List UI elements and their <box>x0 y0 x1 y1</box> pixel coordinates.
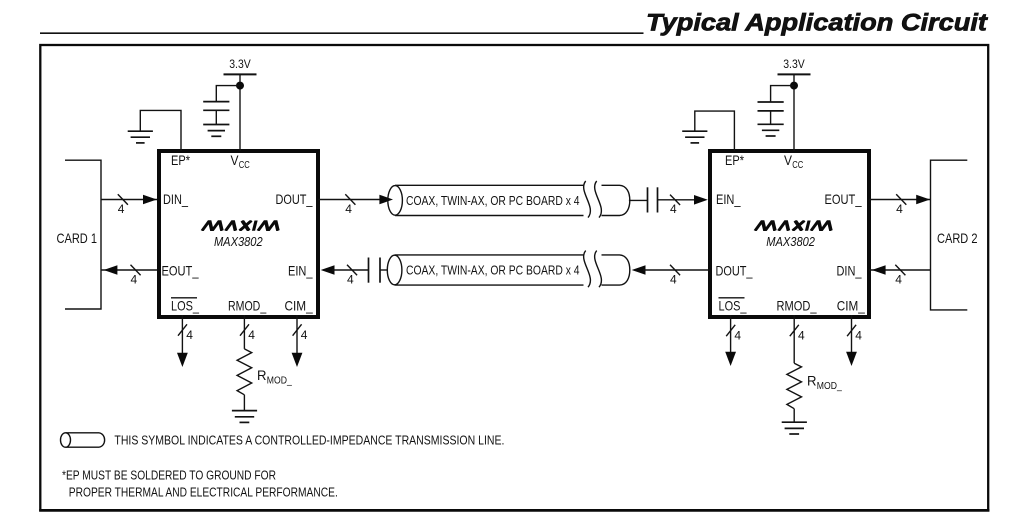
svg-text:COAX, TWIN-AX, OR PC BOARD x 4: COAX, TWIN-AX, OR PC BOARD x 4 <box>406 263 580 278</box>
svg-text:4: 4 <box>301 328 308 342</box>
wire DOUT_ U1 to line 1 <box>318 199 381 201</box>
series capacitor C3 <box>648 187 658 212</box>
arrow into line 2 right end <box>632 265 646 275</box>
line 1 label COAX <box>406 193 580 208</box>
wire EP U2 to ground <box>695 111 735 151</box>
U2 pin label LOS_ (with overline) <box>719 298 747 314</box>
arrow into DIN_ U2 <box>872 265 886 275</box>
svg-text:RMOD_: RMOD_ <box>777 298 817 314</box>
resistor label RMOD_ (U2) <box>807 372 842 392</box>
svg-text:4: 4 <box>345 202 352 216</box>
ground (C2) <box>758 124 784 136</box>
bus width 4 label (DIN_ U2) <box>895 272 902 286</box>
footnote line 1 <box>62 469 276 483</box>
bypass capacitor C1 <box>203 102 229 125</box>
svg-text:EIN_: EIN_ <box>716 191 741 207</box>
bus width 4 label (EOUT_ U2) <box>896 202 903 216</box>
ground (EP U1) <box>128 131 153 143</box>
svg-text:Typical Application Circuit: Typical Application Circuit <box>646 10 988 37</box>
svg-text:DOUT_: DOUT_ <box>716 263 753 279</box>
resistor label RMOD_ (U1) <box>257 367 292 387</box>
bus width 4 label (CIM_ U1) <box>301 328 308 342</box>
ground (EP U2) <box>682 131 707 143</box>
3.3V supply rail (left) <box>224 57 257 74</box>
wire resistor U1 to ground <box>243 395 245 411</box>
U2 pin label EIN_ <box>716 191 741 207</box>
svg-text:LOS_: LOS_ <box>171 298 199 314</box>
svg-text:CARD 1: CARD 1 <box>57 230 98 246</box>
bus slash (CIM_ U2) <box>847 325 856 336</box>
wire C4 to line 2 <box>380 269 388 271</box>
wire EIN_ U1 to C4 <box>332 269 369 271</box>
svg-text:MAX3802: MAX3802 <box>766 235 815 249</box>
svg-text:4: 4 <box>734 329 741 343</box>
line 2 label COAX <box>406 263 580 278</box>
bus width 4 label (EIN_ U1) <box>347 272 354 286</box>
wire C3 to EIN_ U2 <box>658 199 697 201</box>
U2 pin label CIM_ <box>837 298 865 314</box>
U2 part number MAX3802 <box>766 235 815 249</box>
bus slash (RMOD_ U2) <box>790 325 799 336</box>
U1 pin label LOS_ (with overline) <box>171 298 199 314</box>
arrow LOS_ U1 <box>177 353 188 367</box>
3.3V supply rail (right) <box>778 57 811 74</box>
svg-text:4: 4 <box>118 202 125 216</box>
svg-text:DOUT_: DOUT_ <box>276 191 313 207</box>
wire CIM_ U1 down <box>296 315 298 354</box>
wire line 1 to C3 <box>629 199 648 201</box>
wire EP U1 to ground <box>140 110 181 151</box>
svg-text:DIN_: DIN_ <box>837 263 862 279</box>
title rule <box>40 32 644 34</box>
svg-text:4: 4 <box>130 272 137 286</box>
wire CIM_ U2 down <box>851 315 853 353</box>
svg-text:V: V <box>784 152 793 168</box>
arrow CIM_ U1 <box>292 353 303 367</box>
svg-text:4: 4 <box>347 272 354 286</box>
svg-text:3.3V: 3.3V <box>783 57 805 71</box>
U1 pin label EOUT_ <box>162 263 199 279</box>
wire RMOD_ U2 down <box>793 315 795 363</box>
svg-text:LOS_: LOS_ <box>719 298 747 314</box>
svg-text:EP*: EP* <box>725 152 744 168</box>
IC U2 MAX3802 (right) <box>710 151 869 317</box>
wire EOUT_ U2 to CARD 2 <box>869 199 931 201</box>
wire LOS_ U2 down <box>730 315 732 353</box>
arrow LOS_ U2 <box>725 352 736 366</box>
U2 pin label EP* <box>725 152 744 168</box>
resistor RMOD_ (U1) <box>237 349 252 395</box>
svg-text:4: 4 <box>896 202 903 216</box>
svg-text:CC: CC <box>792 159 803 171</box>
CARD 2 connector bracket <box>931 160 978 310</box>
bus slash (LOS_ U1) <box>178 324 187 335</box>
svg-text:CC: CC <box>239 159 250 171</box>
bus width 4 label (CIM_ U2) <box>855 329 862 343</box>
bus width 4 label (EIN_ U2) <box>670 202 677 216</box>
U1 pin label EIN_ <box>288 263 313 279</box>
bus slash (RMOD_ U1) <box>240 324 249 335</box>
U1 pin label DOUT_ <box>276 191 313 207</box>
U1 pin label CIM_ <box>285 298 313 314</box>
svg-text:4: 4 <box>670 202 677 216</box>
svg-text:V: V <box>231 152 240 168</box>
svg-text:4: 4 <box>670 272 677 286</box>
IC U1 MAX3802 (left) <box>159 151 318 317</box>
bus slash (EOUT_ U2) <box>896 194 906 204</box>
bus width 4 label (DIN_ U1) <box>118 202 125 216</box>
bus slash (EIN_ U2) <box>670 195 680 205</box>
bus slash (CIM_ U1) <box>293 324 302 335</box>
arrow into EIN_ U1 <box>321 265 335 275</box>
U1 MAXIM logo <box>202 221 281 231</box>
bus width 4 label (EOUT_ U1) <box>130 272 137 286</box>
bus width 4 label (LOS_ U2) <box>734 329 741 343</box>
bus slash (EIN_ U1) <box>347 265 357 275</box>
arrow CIM_ U2 <box>846 352 857 366</box>
svg-text:4: 4 <box>798 329 805 343</box>
wire cap branch U2 <box>771 86 794 102</box>
ground (RMOD_ U1) <box>232 411 257 423</box>
svg-text:MOD_: MOD_ <box>267 374 292 386</box>
svg-text:THIS SYMBOL INDICATES A CONTRO: THIS SYMBOL INDICATES A CONTROLLED-IMPED… <box>114 432 504 447</box>
resistor RMOD_ (U2) <box>787 363 802 409</box>
svg-text:4: 4 <box>895 272 902 286</box>
svg-text:R: R <box>807 372 817 388</box>
svg-text:EP*: EP* <box>171 152 190 168</box>
svg-text:EOUT_: EOUT_ <box>162 263 199 279</box>
ground (RMOD_ U2) <box>782 422 807 434</box>
bus slash (DOUT_ U2) <box>670 265 680 275</box>
svg-text:COAX, TWIN-AX, OR PC BOARD x 4: COAX, TWIN-AX, OR PC BOARD x 4 <box>406 193 580 208</box>
svg-text:RMOD_: RMOD_ <box>228 298 266 314</box>
bus width 4 label (RMOD_ U2) <box>798 329 805 343</box>
wire resistor U2 to ground <box>793 409 795 423</box>
wire DIN_ U1 from CARD 1 <box>101 199 157 201</box>
svg-text:4: 4 <box>186 328 193 342</box>
wire DOUT_ U2 to line 2 <box>643 269 710 271</box>
transmission line 2 (coax) <box>387 251 629 288</box>
bus width 4 label (LOS_ U1) <box>186 328 193 342</box>
svg-text:CARD 2: CARD 2 <box>937 230 978 246</box>
junction dot at VCC U1 <box>236 82 244 90</box>
svg-text:EOUT_: EOUT_ <box>825 191 862 207</box>
wire LOS_ U1 down <box>181 315 183 354</box>
arrow EOUT_ U1 <box>104 265 118 275</box>
wire VCC U2 <box>793 74 795 151</box>
wire cap branch U1 <box>216 86 240 102</box>
bypass capacitor C2 <box>758 102 784 124</box>
U1 pin label RMOD_ <box>228 298 266 314</box>
wire EOUT_ U1 to CARD 1 <box>101 269 157 271</box>
arrow into EIN_ U2 <box>694 195 708 205</box>
U2 pin label VCC <box>784 152 804 171</box>
bus width 4 label (DOUT_ U1) <box>345 202 352 216</box>
bus slash (DIN_ U2) <box>895 265 905 275</box>
title: Typical Application Circuit <box>646 10 988 37</box>
transmission line 1 (coax) <box>388 181 630 218</box>
svg-text:3.3V: 3.3V <box>229 57 251 71</box>
wire DIN_ U2 from CARD 2 <box>869 269 931 271</box>
legend transmission-line symbol <box>61 433 105 447</box>
svg-text:4: 4 <box>248 328 255 342</box>
U1 pin label VCC <box>231 152 251 171</box>
svg-text:CIM_: CIM_ <box>285 298 313 314</box>
svg-text:EIN_: EIN_ <box>288 263 313 279</box>
U1 pin label EP* <box>171 152 190 168</box>
bus width 4 label (RMOD_ U1) <box>248 328 255 342</box>
bus width 4 label (DOUT_ U2) <box>670 272 677 286</box>
svg-text:MAX3802: MAX3802 <box>214 235 263 249</box>
series capacitor C4 <box>369 258 381 283</box>
U1 pin label DIN_ <box>163 191 188 207</box>
U2 pin label DIN_ <box>837 263 862 279</box>
U2 pin label RMOD_ <box>777 298 817 314</box>
bus slash (DOUT_ U1) <box>345 194 355 204</box>
U2 pin label DOUT_ <box>716 263 753 279</box>
bus slash EOUT_ U1 <box>131 265 141 275</box>
svg-text:4: 4 <box>855 329 862 343</box>
ground (C1) <box>203 125 229 137</box>
U2 pin label EOUT_ <box>825 191 862 207</box>
arrow into CARD 2 <box>916 195 930 205</box>
svg-text:CIM_: CIM_ <box>837 298 865 314</box>
svg-text:R: R <box>257 367 267 383</box>
arrow into line 1 <box>379 195 393 205</box>
U2 MAXIM logo <box>755 221 834 231</box>
svg-text:*EP MUST BE SOLDERED TO GROUND: *EP MUST BE SOLDERED TO GROUND FOR <box>62 469 276 483</box>
wire VCC U1 <box>239 74 241 151</box>
wire RMOD_ U1 down <box>243 315 245 349</box>
U1 part number MAX3802 <box>214 235 263 249</box>
svg-text:PROPER THERMAL AND ELECTRICAL: PROPER THERMAL AND ELECTRICAL PERFORMANC… <box>69 485 338 499</box>
bus slash DIN_ U1 <box>118 194 128 204</box>
svg-text:DIN_: DIN_ <box>163 191 188 207</box>
arrow into DIN_ U1 <box>143 195 157 205</box>
CARD 1 connector bracket <box>57 160 102 309</box>
svg-text:MOD_: MOD_ <box>817 380 842 392</box>
legend text <box>114 432 504 447</box>
footnote line 2 <box>69 485 338 499</box>
bus slash (LOS_ U2) <box>726 325 735 336</box>
junction dot at VCC U2 <box>790 82 798 90</box>
